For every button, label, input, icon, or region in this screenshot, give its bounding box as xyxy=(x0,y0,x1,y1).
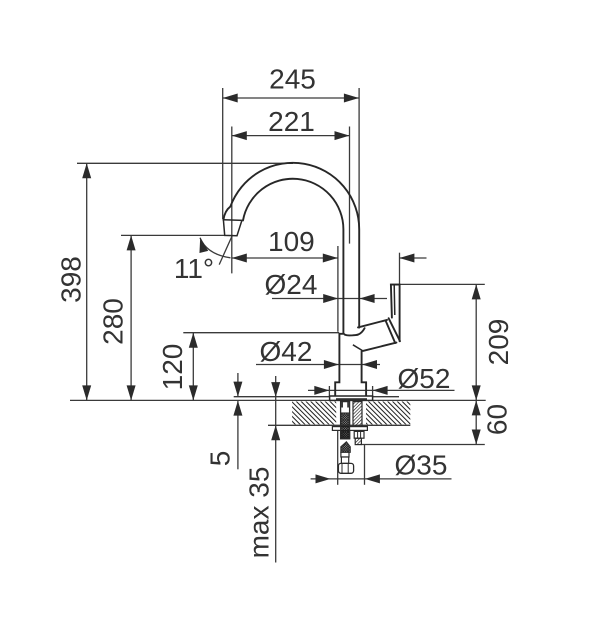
stud tube xyxy=(353,402,362,428)
wire: extension 209 top xyxy=(391,283,485,285)
washer plate xyxy=(332,427,367,431)
body right edge xyxy=(362,351,367,396)
dimension 11 degrees xyxy=(174,235,233,284)
countertop hatch right xyxy=(366,402,410,425)
lever bottom edge xyxy=(363,343,397,351)
wire: extension line 245 right / pipe right upper xyxy=(358,88,360,230)
dimension 280 xyxy=(98,235,136,400)
svg-text:max 35: max 35 xyxy=(244,467,275,559)
shank top o-ring left xyxy=(341,402,343,408)
svg-text:Ø24: Ø24 xyxy=(265,269,318,300)
wire: extension 60 bottom xyxy=(362,444,485,446)
lever inner seam xyxy=(353,345,363,351)
body left edge xyxy=(335,334,342,396)
svg-text:209: 209 xyxy=(483,319,514,366)
svg-text:109: 109 xyxy=(268,226,315,257)
svg-text:398: 398 xyxy=(56,256,87,303)
spout aerator cut line xyxy=(223,219,243,222)
wire: extension O52 left xyxy=(328,386,330,396)
faucet spout inner arc xyxy=(243,179,358,336)
svg-text:Ø42: Ø42 xyxy=(260,336,313,367)
dimension 245 xyxy=(223,64,359,103)
countertop hatch left xyxy=(292,402,336,425)
wire: extension 280 top xyxy=(121,234,225,236)
dimension max 35 xyxy=(244,376,281,563)
wire: flange top extension xyxy=(234,396,399,398)
stud end xyxy=(355,438,361,444)
hose ferrule xyxy=(341,452,349,457)
lever knob xyxy=(391,285,400,342)
lever joint seam xyxy=(358,328,365,335)
wire: extension line knob right xyxy=(399,253,401,285)
shank top o-ring right xyxy=(347,402,349,408)
wire: extension line A (109 right / O24 left) xyxy=(337,246,339,332)
dimension O24 xyxy=(265,269,387,303)
stud nut xyxy=(354,431,364,438)
wire: extension 398 top xyxy=(77,162,293,164)
lever knob highlight xyxy=(393,285,396,315)
faucet spout outer arc xyxy=(223,163,359,328)
wire: extension 120 top xyxy=(183,332,339,334)
flange gasket xyxy=(336,398,367,400)
svg-text:Ø35: Ø35 xyxy=(395,450,448,481)
hose end nut xyxy=(338,463,353,473)
wire: extension line 245 left xyxy=(222,88,224,219)
lever top edge xyxy=(358,320,387,328)
wire: extension line 221 right xyxy=(349,127,351,244)
svg-text:5: 5 xyxy=(205,451,236,467)
dimension 209 xyxy=(472,284,514,400)
lever cap line 2 xyxy=(386,321,396,343)
flange xyxy=(330,396,373,400)
wire: extension O35 left xyxy=(337,428,339,485)
wire: extension O52 right xyxy=(372,386,374,396)
svg-text:280: 280 xyxy=(98,298,129,345)
dimension O42 xyxy=(256,336,380,369)
spout aerator ring xyxy=(223,220,241,236)
wire: extension line 221 left / spout axis xyxy=(231,127,233,274)
hose crimp collar xyxy=(341,442,350,452)
svg-text:120: 120 xyxy=(157,344,188,391)
lever cap line 1 xyxy=(389,318,400,341)
svg-text:245: 245 xyxy=(269,64,316,95)
hose tube xyxy=(341,457,348,463)
shank outline xyxy=(341,402,350,439)
dimension 221 xyxy=(232,106,350,140)
dimension leader knob xyxy=(399,254,426,263)
wire: counter bottom line xyxy=(268,424,410,426)
wire: countertop top line xyxy=(70,399,486,401)
svg-text:11°: 11° xyxy=(174,253,214,284)
svg-text:221: 221 xyxy=(268,106,315,137)
dimension 5 xyxy=(205,373,243,469)
dimension O52 xyxy=(308,363,455,395)
dimension O35 xyxy=(311,450,452,484)
dimension 398 xyxy=(56,163,92,400)
dimension 120 xyxy=(157,333,198,401)
wire: extension O35 right xyxy=(364,445,366,485)
dimension 109 xyxy=(232,226,338,262)
dimension 60 xyxy=(472,400,513,444)
svg-text:60: 60 xyxy=(482,404,513,435)
svg-text:Ø52: Ø52 xyxy=(398,363,451,394)
shank thread crosshatch xyxy=(341,413,350,439)
shank through washer xyxy=(341,425,350,438)
